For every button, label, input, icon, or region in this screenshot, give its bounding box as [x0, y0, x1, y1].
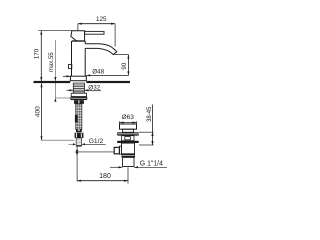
small square on body left edge: [69, 64, 72, 68]
dim 180: [77, 167, 128, 183]
hose hex nut: [75, 133, 84, 138]
dim 38-45: [139, 105, 154, 146]
mounting nut: [71, 93, 86, 97]
hose end collar: [76, 129, 82, 132]
svg-text:Ø63: Ø63: [122, 114, 135, 121]
drain collar threaded: [122, 154, 136, 158]
drain rod knob: [114, 147, 119, 153]
top extension line to 170: [38, 30, 72, 32]
svg-text:38-45: 38-45: [147, 106, 153, 122]
dim max.55: [49, 40, 71, 102]
flexible hoses braided: [76, 104, 82, 130]
drain top flange: [117, 132, 139, 135]
svg-text:G 1"1/4: G 1"1/4: [140, 160, 163, 167]
svg-text:400: 400: [34, 106, 41, 117]
svg-text:170: 170: [34, 48, 41, 59]
dim 125 right extension: [114, 24, 116, 47]
dim G1/2 label: [69, 138, 106, 145]
svg-text:180: 180: [99, 173, 111, 180]
dim 125 left extension (faucet centerline): [77, 24, 79, 31]
dim Ø48: [63, 69, 129, 78]
svg-text:max.55: max.55: [49, 52, 55, 72]
washer bar: [71, 98, 87, 99]
dim 170: [34, 31, 43, 81]
dim 90: [121, 55, 129, 76]
dim Ø32: [67, 85, 102, 92]
dim 125 dimension line: [78, 16, 115, 25]
dim Ø63: [120, 114, 137, 124]
dim G 1"1/4 label: [110, 160, 167, 168]
drain tail pipe: [123, 157, 135, 166]
drain neck: [123, 129, 134, 132]
svg-text:Ø48: Ø48: [92, 69, 104, 76]
dim 90 extension from spout tip: [113, 54, 128, 56]
spout: [85, 44, 117, 55]
pop-up horizontal rod: [78, 151, 115, 153]
faucet lever bar: [85, 31, 104, 34]
faucet body: [72, 41, 86, 76]
drain lower flange: [117, 141, 139, 143]
hose tag: [75, 115, 78, 122]
pop-up rod joint: [75, 149, 78, 155]
deck line left: [34, 81, 71, 83]
drain cap: [120, 124, 137, 129]
hose crimp sleeves: [74, 100, 84, 104]
drain clevis bar: [119, 146, 121, 154]
svg-text:125: 125: [96, 16, 107, 23]
svg-text:90: 90: [121, 62, 128, 70]
faucet base ring: [70, 76, 86, 81]
drain square nut: [122, 136, 135, 141]
drain body: [122, 143, 135, 154]
deck line right: [86, 81, 130, 83]
hose male thread G1/2: [76, 138, 81, 147]
pop-up rod vertical / 180 left extension: [76, 147, 78, 182]
threaded shank: [73, 83, 84, 93]
faucet handle cap: [71, 31, 85, 41]
dim 400: [34, 83, 74, 140]
